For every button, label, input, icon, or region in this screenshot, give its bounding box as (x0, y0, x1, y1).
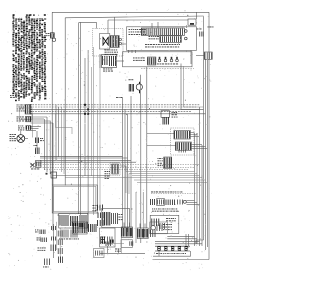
plug box (94, 249, 105, 258)
mid bus 3 (40, 159, 131, 161)
notes text block (12, 15, 46, 102)
bottom comp F (106, 242, 111, 254)
step wire 6 (137, 181, 207, 183)
mid bus 5 (30, 164, 200, 166)
wire nest ur1 (181, 64, 200, 110)
terminal block TB1 (155, 246, 190, 251)
connector P2 body (26, 116, 31, 122)
step wire 2 (129, 173, 197, 175)
bottom box1 (102, 208, 130, 227)
bottom line under box1 (102, 242, 124, 244)
outer loop bottom (153, 259, 210, 261)
wire right bus 5 (205, 59, 207, 250)
bottom dot pair (110, 240, 114, 243)
element terminal row (157, 57, 178, 65)
broil row wires (187, 201, 200, 205)
infinite switch feed (147, 134, 176, 146)
clock contacts (185, 30, 188, 40)
wire inner drop a (78, 22, 80, 214)
terminal feed 2 (167, 238, 197, 240)
wire top inner2 (79, 21, 97, 23)
bake element body (133, 57, 156, 65)
element box (123, 52, 193, 67)
door switch S3 (31, 161, 42, 170)
broil row labels (151, 192, 196, 194)
clock labels (145, 44, 180, 47)
solenoid label (129, 78, 134, 81)
fan switch pair1 (121, 223, 133, 238)
bottom cluster A (73, 222, 88, 234)
wire P1 down right (32, 113, 34, 138)
oven switch SW2 body (100, 54, 117, 68)
wire right bus 3 (199, 107, 201, 246)
wire right bus 6 (206, 60, 208, 247)
junction dots bus (84, 104, 89, 115)
step drops (126, 172, 129, 195)
oven switch SW2 line (117, 60, 125, 62)
element box dashed tail (141, 68, 194, 70)
connector on right edge (196, 52, 212, 59)
label right edge (208, 26, 214, 29)
fan switch pair2 (137, 224, 148, 239)
step wire 4 (65, 175, 202, 178)
cluster X4 (158, 157, 172, 169)
wire right bus 2 (196, 133, 198, 244)
clock row2 left labels (149, 36, 160, 39)
sensor labels (38, 248, 46, 251)
component right top (197, 29, 204, 37)
probe component (43, 259, 50, 268)
bus h2 (30, 106, 197, 108)
lock box (52, 185, 97, 213)
control box outline (127, 27, 197, 51)
mid bus 4 (35, 161, 136, 163)
center vert group1 (45, 105, 59, 231)
sensor chain B (58, 228, 62, 263)
solenoid coil blob (129, 84, 133, 92)
cluster X3a box (161, 111, 170, 118)
center vert group5 (136, 67, 147, 243)
lock box inner (54, 186, 96, 211)
switch on wire left (46, 172, 57, 178)
connector P2 labels (17, 117, 25, 122)
center vert group2 (85, 47, 94, 231)
terminal drops (159, 234, 189, 256)
solenoid wire (140, 75, 142, 105)
wire left drop L1 (51, 12, 53, 185)
bottom comp D (101, 237, 105, 245)
terminal feed 4 (155, 243, 202, 245)
bus h1 (30, 104, 200, 106)
wire left drop N (64, 18, 66, 186)
wire right bus 1 (194, 133, 196, 246)
bottom mid box (121, 240, 133, 248)
motor M1 labels (10, 134, 17, 141)
solenoid bottom tick (139, 90, 141, 93)
sensor chain second wire (55, 222, 57, 250)
clock assembly body (141, 28, 184, 36)
bus h4 (30, 111, 192, 113)
terminal labels (156, 252, 186, 255)
terminal feed 1 (167, 235, 194, 237)
infinite switch B (175, 142, 191, 151)
wire right bus 4 (201, 145, 203, 246)
oven switch SW2 labels (103, 69, 113, 72)
connector P4 (110, 163, 126, 176)
solenoid circle (136, 84, 142, 90)
connector P1 pins (30, 104, 31, 114)
notes header marks (13, 14, 46, 16)
connector P1 body (20, 105, 33, 120)
mid bus 7 (44, 168, 188, 170)
infinite switch B tails (179, 150, 186, 153)
thermal fuse TF2 (37, 238, 47, 243)
bus h5 (30, 113, 206, 115)
bottom comp E (151, 230, 156, 238)
connector P2 wires (31, 117, 54, 123)
capacitor C2 (34, 143, 40, 154)
mid bus 1 (40, 156, 123, 158)
step wire 3 (132, 175, 200, 177)
broil component row (151, 199, 187, 206)
broil row labels2 (152, 209, 178, 212)
infinite switch B fan (192, 145, 208, 149)
wire L1 top outer (52, 11, 209, 13)
ground wire bottom (153, 251, 191, 256)
mid bus 6 (30, 166, 195, 168)
infinite switch A (174, 131, 191, 140)
relay K1 inner box (100, 34, 110, 50)
lock label (105, 171, 111, 179)
clock left labels (129, 29, 147, 35)
latch chain (93, 205, 104, 227)
bottom box C (100, 228, 116, 247)
control box drops (129, 50, 136, 53)
bus h3 (30, 108, 204, 110)
infinite switch dbox (171, 128, 195, 155)
bottom cluster B (89, 224, 97, 232)
lower right box (150, 215, 179, 233)
bottom wire mid (100, 249, 145, 254)
bottom box1 cluster (103, 212, 123, 226)
surface switch SW1 contacts (119, 38, 121, 44)
note label A (10, 95, 17, 98)
bus label (116, 96, 122, 99)
surface switch SW1 body (110, 36, 119, 48)
connector P1 labels (17, 105, 25, 112)
neutral drop (196, 240, 204, 244)
center vert group4 (123, 96, 132, 236)
lock cluster2 (59, 230, 79, 240)
surface switch outer dashed box (93, 29, 124, 57)
relight box (150, 222, 172, 234)
infinite switch A fan (191, 133, 200, 137)
motor M1 circle (17, 135, 25, 143)
scan speckle noise (7, 9, 212, 270)
fuse on left wire (46, 33, 56, 42)
wire N right (203, 16, 205, 240)
step wire 5 (134, 179, 206, 181)
mid bus 2 (40, 157, 128, 159)
wire top inner (108, 19, 188, 21)
thermal fuse TF1 (35, 230, 45, 235)
center vert group3 (98, 68, 101, 204)
wire relay feed (96, 22, 98, 28)
cluster X3a body (163, 112, 178, 125)
solenoid top tick (139, 82, 141, 84)
wire L1 right outer (208, 12, 210, 259)
bottom drop wire (121, 238, 123, 254)
surface switch SW1 labels (105, 50, 119, 55)
wire nest ur2 (184, 66, 204, 107)
step wire 1 (126, 171, 195, 173)
surface switch SW1 stubs (108, 17, 126, 44)
motor M1 leads (21, 131, 28, 139)
sensor chain (51, 224, 56, 258)
connector P3 wires (31, 127, 41, 131)
terminal feed 3 (155, 240, 200, 242)
lock box inner line (52, 175, 110, 177)
clock stub wires (152, 12, 197, 64)
wire N top (65, 16, 203, 18)
wire inner drop b (79, 22, 81, 215)
lock cluster (59, 214, 88, 229)
junction box top right (188, 19, 196, 25)
connector P3 body (18, 126, 31, 131)
relay K1 contacts (103, 37, 109, 46)
capacitor C1 (36, 131, 45, 143)
clock assembly row2 (160, 36, 182, 43)
bus corner turns (56, 107, 73, 174)
